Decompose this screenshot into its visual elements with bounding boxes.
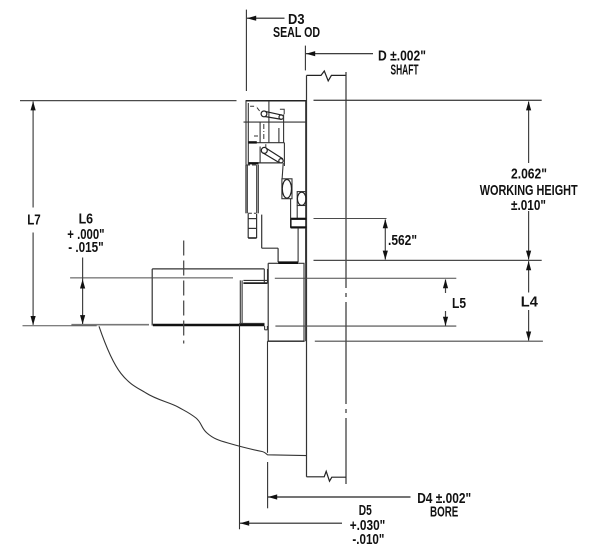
dimension L4 line upper segment xyxy=(528,261,530,292)
gland pilot tab bottom xyxy=(265,329,268,331)
svg-text:L4: L4 xyxy=(521,295,539,311)
step profile vertical upper xyxy=(261,215,263,249)
dimension 2.062 top arrowhead xyxy=(526,101,531,110)
svg-text:L5: L5 xyxy=(452,296,466,312)
dimension L5 line upper segment xyxy=(445,280,447,294)
svg-text:-.010": -.010" xyxy=(352,532,384,548)
shaft left edge xyxy=(306,75,308,476)
dimension D5 arrowhead xyxy=(240,521,249,526)
reference line top (working height datum) left segment xyxy=(20,100,237,102)
svg-text:SHAFT: SHAFT xyxy=(391,63,419,79)
dimension D shaft extension line xyxy=(304,46,306,71)
hidden dash lower xyxy=(254,135,260,137)
bellows tail divider 1 xyxy=(248,218,256,220)
spring 1 body upper line xyxy=(265,111,282,115)
dimension L7 line lower segment xyxy=(32,233,34,325)
spring 1 lower coil circle xyxy=(279,115,283,119)
spring 1 body lower line xyxy=(265,117,282,120)
dimension L6 line xyxy=(82,258,84,325)
o-ring 1 pocket box xyxy=(282,179,292,199)
step profile vertical lower xyxy=(277,248,279,262)
bellows outer right wall xyxy=(257,165,259,214)
bellows bottom dashed line xyxy=(248,212,256,214)
svg-text:.562": .562" xyxy=(388,233,417,249)
shaft bottom break line xyxy=(307,471,346,481)
dimension 2.062 line lower segment xyxy=(528,211,530,260)
spring 1 upper coil circle xyxy=(261,111,267,117)
retainer mid horizontal line xyxy=(244,121,307,123)
spring 2 body lower line xyxy=(263,153,280,163)
svg-text:- .015": - .015" xyxy=(68,240,104,256)
svg-text:±.010": ±.010" xyxy=(511,198,546,214)
dimension L5 bottom arrowhead xyxy=(443,317,448,326)
dimension D4 arrowhead xyxy=(268,494,277,499)
box face reference line right segment xyxy=(275,325,456,327)
dimension L5 line lower segment xyxy=(445,311,447,326)
dimension L4 line lower segment xyxy=(528,310,530,341)
spring 2 body upper line xyxy=(266,148,283,159)
dimension .562 line xyxy=(384,220,386,260)
dimension L7 line upper segment xyxy=(32,102,34,208)
collar box top thick segment xyxy=(278,261,298,264)
dimension L6 down arrowhead xyxy=(80,315,85,324)
spring section left vertical xyxy=(259,147,261,164)
sleeve column right wall xyxy=(305,228,307,263)
bellows top dashed line xyxy=(246,164,258,166)
step profile horizontal xyxy=(262,247,278,249)
retainer right inner vertical xyxy=(278,128,280,143)
gland recess left wall outer xyxy=(239,280,241,323)
svg-text:WORKING HEIGHT: WORKING HEIGHT xyxy=(480,183,578,199)
svg-text:D5: D5 xyxy=(359,503,372,519)
dimension D3 extension line xyxy=(245,10,247,91)
box face reference line left thin xyxy=(23,325,97,327)
seat box top thick xyxy=(291,218,307,220)
dimension D3 leader line xyxy=(247,17,285,19)
bore wall vertical xyxy=(267,341,269,453)
bore bottom reference line right segment xyxy=(315,340,543,342)
spring 2 upper coil circle xyxy=(261,147,267,153)
dimension .562 bottom arrowhead xyxy=(383,251,388,260)
dimension D arrowhead xyxy=(306,51,315,56)
dimension L4 top arrowhead xyxy=(526,261,531,270)
spring 2 lower coil circle xyxy=(279,159,283,163)
gland recess left wall inner xyxy=(241,280,243,323)
gland plate bottom thick xyxy=(153,324,265,327)
bellows tail right wall xyxy=(256,214,258,238)
dimension D4 line xyxy=(268,496,411,498)
seat face reference line right segment xyxy=(275,277,457,279)
seat wall left below o-ring 1 xyxy=(290,199,292,219)
hidden pocket corner line xyxy=(280,109,284,114)
dimension .562 top arrowhead xyxy=(383,219,388,228)
seat face reference line left segment xyxy=(70,277,233,279)
dimension L7 top arrowhead xyxy=(30,101,35,110)
svg-text:L6: L6 xyxy=(79,212,94,228)
o-ring 2 xyxy=(297,192,306,205)
seal bore line along shaft xyxy=(305,101,307,341)
bellows inner right wall xyxy=(256,165,258,214)
hidden line dash upper left xyxy=(250,105,256,107)
collar box top thin segment xyxy=(268,262,278,264)
dimension 2.062 line upper segment xyxy=(528,102,530,164)
gland pilot tab left xyxy=(264,326,266,330)
gland recess bottom line xyxy=(240,322,264,324)
bellows tail divider 2 xyxy=(248,227,256,229)
spring section bottom edge xyxy=(249,162,283,164)
spring 2 top tick xyxy=(265,144,267,148)
bellows tail bottom xyxy=(248,237,256,239)
seal retainer top edge xyxy=(246,100,307,102)
collar box right wall xyxy=(303,263,305,341)
gland recess band line xyxy=(243,282,267,284)
dimension L4 bottom arrowhead xyxy=(526,332,531,341)
shaft top break line xyxy=(307,71,346,81)
retainer right wall vertical xyxy=(283,115,285,143)
o-ring 1 xyxy=(282,180,291,199)
spring section bottom thick segment xyxy=(249,162,259,164)
reference line top right segment xyxy=(314,99,542,101)
working height bottom reference line xyxy=(314,259,542,261)
collar box left wall xyxy=(267,263,269,341)
o-ring 2 pocket box xyxy=(297,192,306,206)
svg-text:L7: L7 xyxy=(27,213,41,229)
bellows outer left wall xyxy=(245,165,247,214)
retainer inner vertical below mid xyxy=(259,122,261,143)
dimension D leader line xyxy=(306,53,373,55)
hidden line diagonal dash xyxy=(257,108,260,111)
dimension D5 extension line xyxy=(239,323,241,529)
seal retainer left wall outer xyxy=(245,101,247,165)
dimension 2.062 bottom arrowhead xyxy=(526,251,531,260)
dimension L7 bottom arrowhead xyxy=(30,316,35,325)
gland recess top line xyxy=(243,279,267,281)
retainer divider vertical xyxy=(268,101,270,143)
gland bolt centerline dashed xyxy=(183,241,185,344)
seal retainer left wall inner xyxy=(247,103,249,165)
svg-text:SEAL OD: SEAL OD xyxy=(273,25,320,41)
seat wall below o-ring 2 xyxy=(296,206,298,219)
retainer bottom thick segment xyxy=(248,141,256,143)
gland right lip outer xyxy=(263,269,265,283)
shaft centerline xyxy=(345,72,347,484)
gland plate top edge xyxy=(152,268,264,270)
primary ring outer wall xyxy=(282,163,283,179)
spring 1 centerline dash xyxy=(263,124,265,141)
housing break wavy outline xyxy=(99,326,307,455)
bellows inner left wall xyxy=(246,165,248,214)
seat box bottom thick xyxy=(291,226,307,228)
spring section right vertical xyxy=(283,143,285,166)
gland right lip inner xyxy=(267,269,269,283)
dimension L6 up arrowhead xyxy=(80,279,85,288)
box face reference line gray segment xyxy=(71,324,149,326)
bellows tail left wall xyxy=(247,214,249,238)
dimension L5 top arrowhead xyxy=(443,279,448,288)
retainer bottom edge xyxy=(248,142,284,144)
svg-text:BORE: BORE xyxy=(430,504,458,520)
gland plate left edge xyxy=(151,269,153,326)
seat box left wall xyxy=(290,218,292,227)
dimension D3 arrowhead xyxy=(247,16,256,21)
collar box top thin continuation xyxy=(298,262,304,264)
dimension D4 extension line xyxy=(267,462,269,508)
collar box bottom xyxy=(268,340,305,342)
svg-text:2.062": 2.062" xyxy=(511,166,547,182)
sleeve column left wall xyxy=(297,228,299,263)
dimension D5 line xyxy=(240,522,342,524)
seat top reference line xyxy=(314,218,387,220)
gland pilot tab right xyxy=(266,326,268,330)
